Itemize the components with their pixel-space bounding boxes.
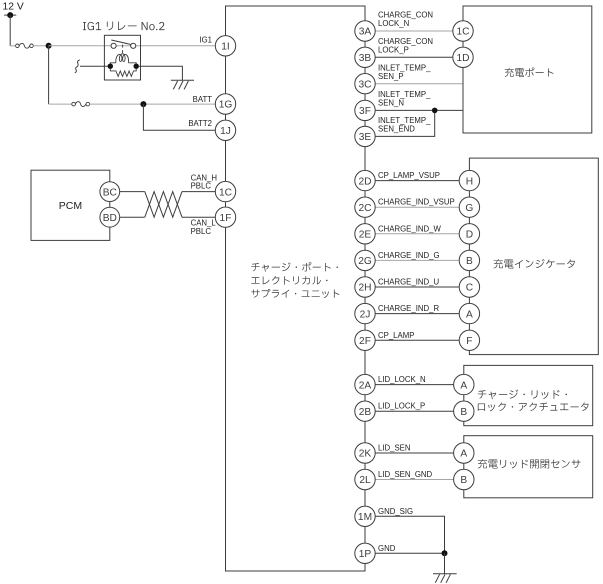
svg-text:BATT2: BATT2 [188, 119, 212, 128]
charge port unit box [463, 6, 592, 133]
terminal 2E [355, 224, 375, 244]
svg-text:CP_LAMP_VSUP: CP_LAMP_VSUP [378, 171, 440, 180]
wire INLET_TEMP_SEN_N (3F) [375, 109, 463, 111]
svg-text:A: A [460, 380, 467, 391]
terminal 2F [355, 330, 375, 350]
terminal F (indicator) [459, 330, 479, 350]
wire junction down to BATT branch [48, 46, 50, 104]
svg-text:2H: 2H [358, 283, 371, 294]
svg-text:1F: 1F [220, 213, 232, 224]
svg-text:12 V: 12 V [3, 2, 24, 13]
svg-text:2F: 2F [359, 336, 371, 347]
terminal 2L [355, 469, 375, 489]
terminal C (indicator) [459, 277, 479, 297]
svg-text:3A: 3A [359, 27, 372, 38]
svg-text:H: H [466, 176, 473, 187]
terminal 3A [355, 21, 375, 41]
svg-text:2G: 2G [358, 256, 372, 267]
svg-text:CHARGE_IND_R: CHARGE_IND_R [378, 304, 439, 313]
label 充電インジケータ [494, 259, 575, 269]
wire INLET_TEMP_SEN_P (3C) [375, 83, 463, 85]
svg-text:CHARGE_IND_G: CHARGE_IND_G [378, 251, 440, 260]
svg-text:CHARGE_IND_U: CHARGE_IND_U [378, 278, 439, 287]
wire BC to twisted pair [120, 191, 145, 193]
svg-text:F: F [466, 336, 472, 347]
terminal 2K [355, 443, 375, 463]
wire 12V to fusible link [10, 45, 15, 47]
svg-text:1G: 1G [219, 100, 233, 111]
svg-text:GND_SIG: GND_SIG [378, 507, 413, 516]
svg-text:3B: 3B [359, 53, 372, 64]
svg-text:PBLC: PBLC [191, 182, 212, 191]
terminal 3F [355, 100, 375, 120]
svg-text:1J: 1J [220, 126, 231, 137]
ECU name text line 1 [251, 262, 338, 272]
wire coil to harness break [80, 65, 108, 67]
node IG1/BATT junction [46, 43, 52, 49]
svg-text:LID_LOCK_P: LID_LOCK_P [378, 402, 425, 411]
svg-text:1C: 1C [456, 27, 469, 38]
svg-text:BD: BD [103, 213, 117, 224]
terminal 2D [355, 170, 375, 190]
wire coil to ground [139, 66, 183, 80]
svg-text:3C: 3C [358, 79, 371, 90]
node inlet temp sensor junction [432, 108, 438, 114]
terminal A (indicator) [459, 303, 479, 323]
terminal BC [100, 182, 120, 202]
wire CP_LAMP [375, 339, 459, 341]
wire twisted pair to terminal 1F [182, 216, 215, 218]
wire junction to ground [444, 553, 446, 573]
label チャージ・リッド・ [478, 389, 567, 399]
svg-text:PBLC: PBLC [191, 227, 212, 236]
wire BATT to terminal 1G [90, 103, 216, 105]
svg-text:SEN_N: SEN_N [378, 99, 404, 108]
ECU name text line 3 [251, 289, 339, 298]
wire CHARGE_IND_U [375, 286, 459, 288]
node ground junction [442, 550, 448, 556]
terminal 2C [355, 197, 375, 217]
ECU name text line 2 [251, 276, 327, 284]
wire CHARGE_IND_R [375, 313, 459, 315]
wire BATT branch to fusible link [49, 103, 72, 105]
label 充電ポート [505, 67, 554, 77]
terminal 1C (ECU) [215, 181, 235, 201]
terminal A (lid sensor) [454, 443, 474, 463]
svg-text:SEN_END: SEN_END [378, 125, 415, 134]
charge lid lock actuator box [464, 365, 593, 425]
wire INLET_TEMP_SEN_END (3E) [375, 110, 435, 136]
terminal BD [100, 207, 120, 227]
terminal 1J [215, 120, 235, 140]
svg-text:D: D [466, 230, 473, 241]
relay IG1 リレー No.2 [104, 35, 140, 80]
terminal 3E [355, 126, 375, 146]
terminal A (lid lock) [454, 374, 474, 394]
wire CHARGE_CON LOCK_P (3B to 1D) [375, 56, 453, 58]
terminal 1C (charge port) [453, 21, 473, 41]
svg-text:PCM: PCM [59, 200, 82, 212]
svg-text:CHARGE_IND_W: CHARGE_IND_W [378, 224, 441, 233]
terminal 2A [355, 374, 375, 394]
terminal 2B [355, 401, 375, 421]
terminal 1P [355, 543, 375, 563]
svg-text:LOCK_N: LOCK_N [378, 19, 409, 28]
ground (relay coil) [171, 80, 194, 89]
svg-text:C: C [466, 283, 473, 294]
wire fusible link to junction [33, 45, 48, 47]
fusible link F1 (IG1 feed) [16, 43, 34, 48]
wire LID_SEN [375, 452, 453, 454]
svg-text:1I: 1I [221, 42, 230, 53]
wire LID_SEN_GND [375, 479, 453, 481]
svg-text:1M: 1M [358, 512, 372, 523]
PCM module [31, 170, 110, 240]
svg-text:B: B [466, 256, 473, 267]
wire LID_LOCK_N [375, 384, 453, 386]
terminal H (indicator) [459, 170, 479, 190]
svg-text:A: A [466, 309, 473, 320]
svg-text:3F: 3F [359, 106, 371, 117]
svg-text:2K: 2K [359, 449, 372, 460]
svg-text:BC: BC [103, 187, 117, 198]
wire CHARGE_IND_VSUP [375, 206, 459, 208]
break symbol (continuation squiggle) [75, 60, 80, 73]
svg-text:CHARGE_IND_VSUP: CHARGE_IND_VSUP [378, 198, 455, 207]
ECU charge port electrical supply unit [226, 6, 366, 571]
wire GND_SIG [375, 516, 444, 553]
charge indicator box [469, 158, 598, 355]
terminal 1F (ECU) [215, 207, 235, 227]
svg-text:B: B [460, 407, 467, 418]
svg-text:2D: 2D [358, 176, 371, 187]
charge lid open/close sensor box [464, 436, 593, 498]
wire CHARGE_CON LOCK_N (3A to 1C) [375, 30, 453, 32]
terminal 1I [215, 36, 235, 56]
svg-text:CP_LAMP: CP_LAMP [378, 331, 414, 340]
svg-text:LOCK_P: LOCK_P [378, 45, 409, 54]
terminal B (lid lock) [454, 401, 474, 421]
terminal G (indicator) [459, 197, 479, 217]
svg-text:BATT: BATT [193, 95, 213, 104]
terminal D (indicator) [459, 224, 479, 244]
svg-text:2B: 2B [359, 407, 372, 418]
svg-text:2L: 2L [359, 475, 371, 486]
wire LID_LOCK_P [375, 410, 453, 412]
svg-text:2A: 2A [359, 380, 372, 391]
twisted pair CAN_H/CAN_L [145, 192, 182, 218]
svg-text:2C: 2C [358, 203, 371, 214]
wire CP_LAMP_VSUP [375, 180, 459, 182]
terminal B (indicator) [459, 250, 479, 270]
svg-text:3E: 3E [359, 132, 372, 143]
ground (chassis) [433, 574, 457, 583]
terminal 3B [355, 47, 375, 67]
wire GND [375, 552, 444, 554]
svg-text:SEN_P: SEN_P [378, 72, 404, 81]
svg-text:A: A [460, 449, 467, 460]
terminal 3C [355, 74, 375, 94]
terminal 1D (charge port) [453, 47, 473, 67]
svg-text:1C: 1C [219, 187, 232, 198]
wire CHARGE_IND_G [375, 259, 459, 261]
wire BD to twisted pair [120, 216, 145, 218]
terminal 1G [215, 94, 235, 114]
terminal 1M [355, 506, 375, 526]
svg-text:G: G [465, 203, 473, 214]
svg-text:LID_LOCK_N: LID_LOCK_N [378, 375, 426, 384]
svg-text:IG1: IG1 [199, 36, 212, 45]
relay title IG1 リレー No.2 [83, 22, 165, 31]
terminal B (lid sensor) [454, 469, 474, 489]
wire 12V down [9, 15, 11, 46]
svg-text:2E: 2E [359, 230, 372, 241]
svg-text:LID_SEN_GND: LID_SEN_GND [378, 470, 433, 479]
fusible link F2 (BATT feed) [72, 102, 90, 107]
svg-text:B: B [460, 475, 467, 486]
terminal 2G [355, 250, 375, 270]
terminal 2H [355, 277, 375, 297]
label ロック・アクチュエータ [478, 402, 589, 411]
wire junction through relay to terminal 1I [49, 45, 216, 47]
svg-text:GND: GND [378, 544, 396, 553]
power source 12 V [3, 2, 24, 19]
svg-text:1P: 1P [359, 549, 372, 560]
wire CHARGE_IND_W [375, 233, 459, 235]
node BATT/BATT2 junction [140, 101, 146, 107]
label 充電リッド開閉センサ [478, 459, 581, 468]
terminal 2J [355, 303, 375, 323]
wire twisted pair to terminal 1C [182, 191, 215, 193]
wire BATT2 to terminal 1J [143, 104, 215, 130]
svg-text:1D: 1D [456, 53, 469, 64]
svg-text:LID_SEN: LID_SEN [378, 444, 411, 453]
svg-text:2J: 2J [360, 309, 371, 320]
